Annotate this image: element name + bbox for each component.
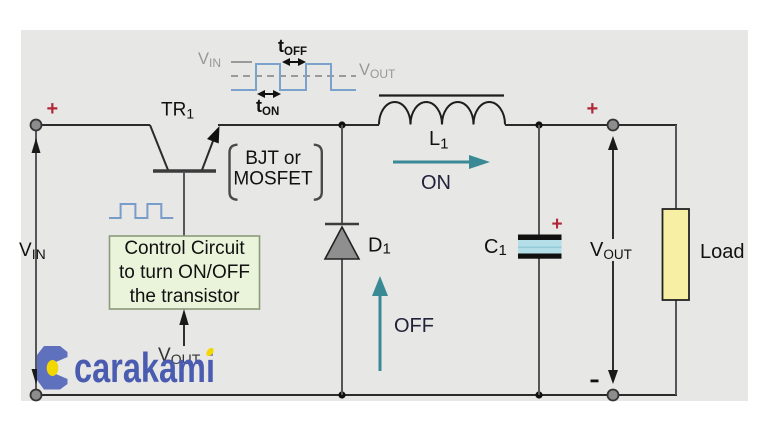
svg-text:OFF: OFF <box>394 315 434 337</box>
inductor L1 windings <box>379 102 505 125</box>
wire load branch upper <box>675 125 677 209</box>
Vin measure arrow down <box>32 369 41 384</box>
node junction top cap <box>535 121 542 128</box>
node junction top diode <box>338 121 345 128</box>
wire Vout branch top node <box>608 120 619 131</box>
svg-text:BJT or: BJT or <box>245 148 301 169</box>
wire top rail middle segment <box>218 124 379 126</box>
svg-text:+: + <box>47 98 59 120</box>
wire left branch (Vin) <box>35 125 37 395</box>
BJT or MOSFET note brackets <box>230 145 322 200</box>
svg-text:ON: ON <box>421 172 451 194</box>
svg-text:Load: Load <box>700 241 745 263</box>
OFF current arrow <box>372 276 388 371</box>
diode D1 <box>325 224 359 259</box>
node junction bottom diode <box>338 391 345 398</box>
wire capacitor branch upper <box>538 125 540 236</box>
wire top rail right segment <box>505 124 677 126</box>
svg-text:the transistor: the transistor <box>130 286 240 307</box>
Vout measure arrow <box>588 136 638 384</box>
wire diode branch upper <box>341 125 343 224</box>
tOFF arrow <box>282 58 306 66</box>
node terminal top-left <box>31 120 42 131</box>
wire load branch lower <box>675 300 677 395</box>
feedback arrow into control box <box>179 309 188 346</box>
svg-text:carakami: carakami <box>74 344 215 391</box>
svg-text:MOSFET: MOSFET <box>233 169 313 190</box>
svg-text:Control Circuit: Control Circuit <box>124 238 245 259</box>
wire transistor base <box>183 172 185 236</box>
node terminal bottom-left <box>31 390 42 401</box>
wire Vout branch bottom node <box>608 390 619 401</box>
resistor Load <box>663 209 690 300</box>
svg-text:+: + <box>552 214 563 235</box>
carakami logo icon <box>37 346 68 390</box>
waveform square wave <box>231 64 356 90</box>
logo sparkle <box>205 347 215 358</box>
svg-text:to turn ON/OFF: to turn ON/OFF <box>119 262 250 283</box>
Vin measure arrow up <box>32 138 41 153</box>
wire bottom rail <box>36 394 677 396</box>
tON arrow <box>257 90 281 98</box>
capacitor C1 <box>518 235 562 259</box>
control circuit box <box>110 236 260 309</box>
ON current arrow <box>393 155 490 169</box>
wire diode branch lower <box>341 259 343 395</box>
gate pulse waveform <box>109 204 173 218</box>
wire top rail left segment <box>36 124 150 126</box>
waveform Vin level tick <box>231 61 252 63</box>
svg-text:+: + <box>587 98 599 120</box>
wire capacitor branch lower <box>538 257 540 395</box>
transistor TR1 <box>150 125 220 171</box>
waveform average dashed line <box>231 75 356 77</box>
node junction bottom cap <box>535 391 542 398</box>
minus sign Vout <box>591 380 599 383</box>
inductor L1 core bar <box>379 94 504 96</box>
